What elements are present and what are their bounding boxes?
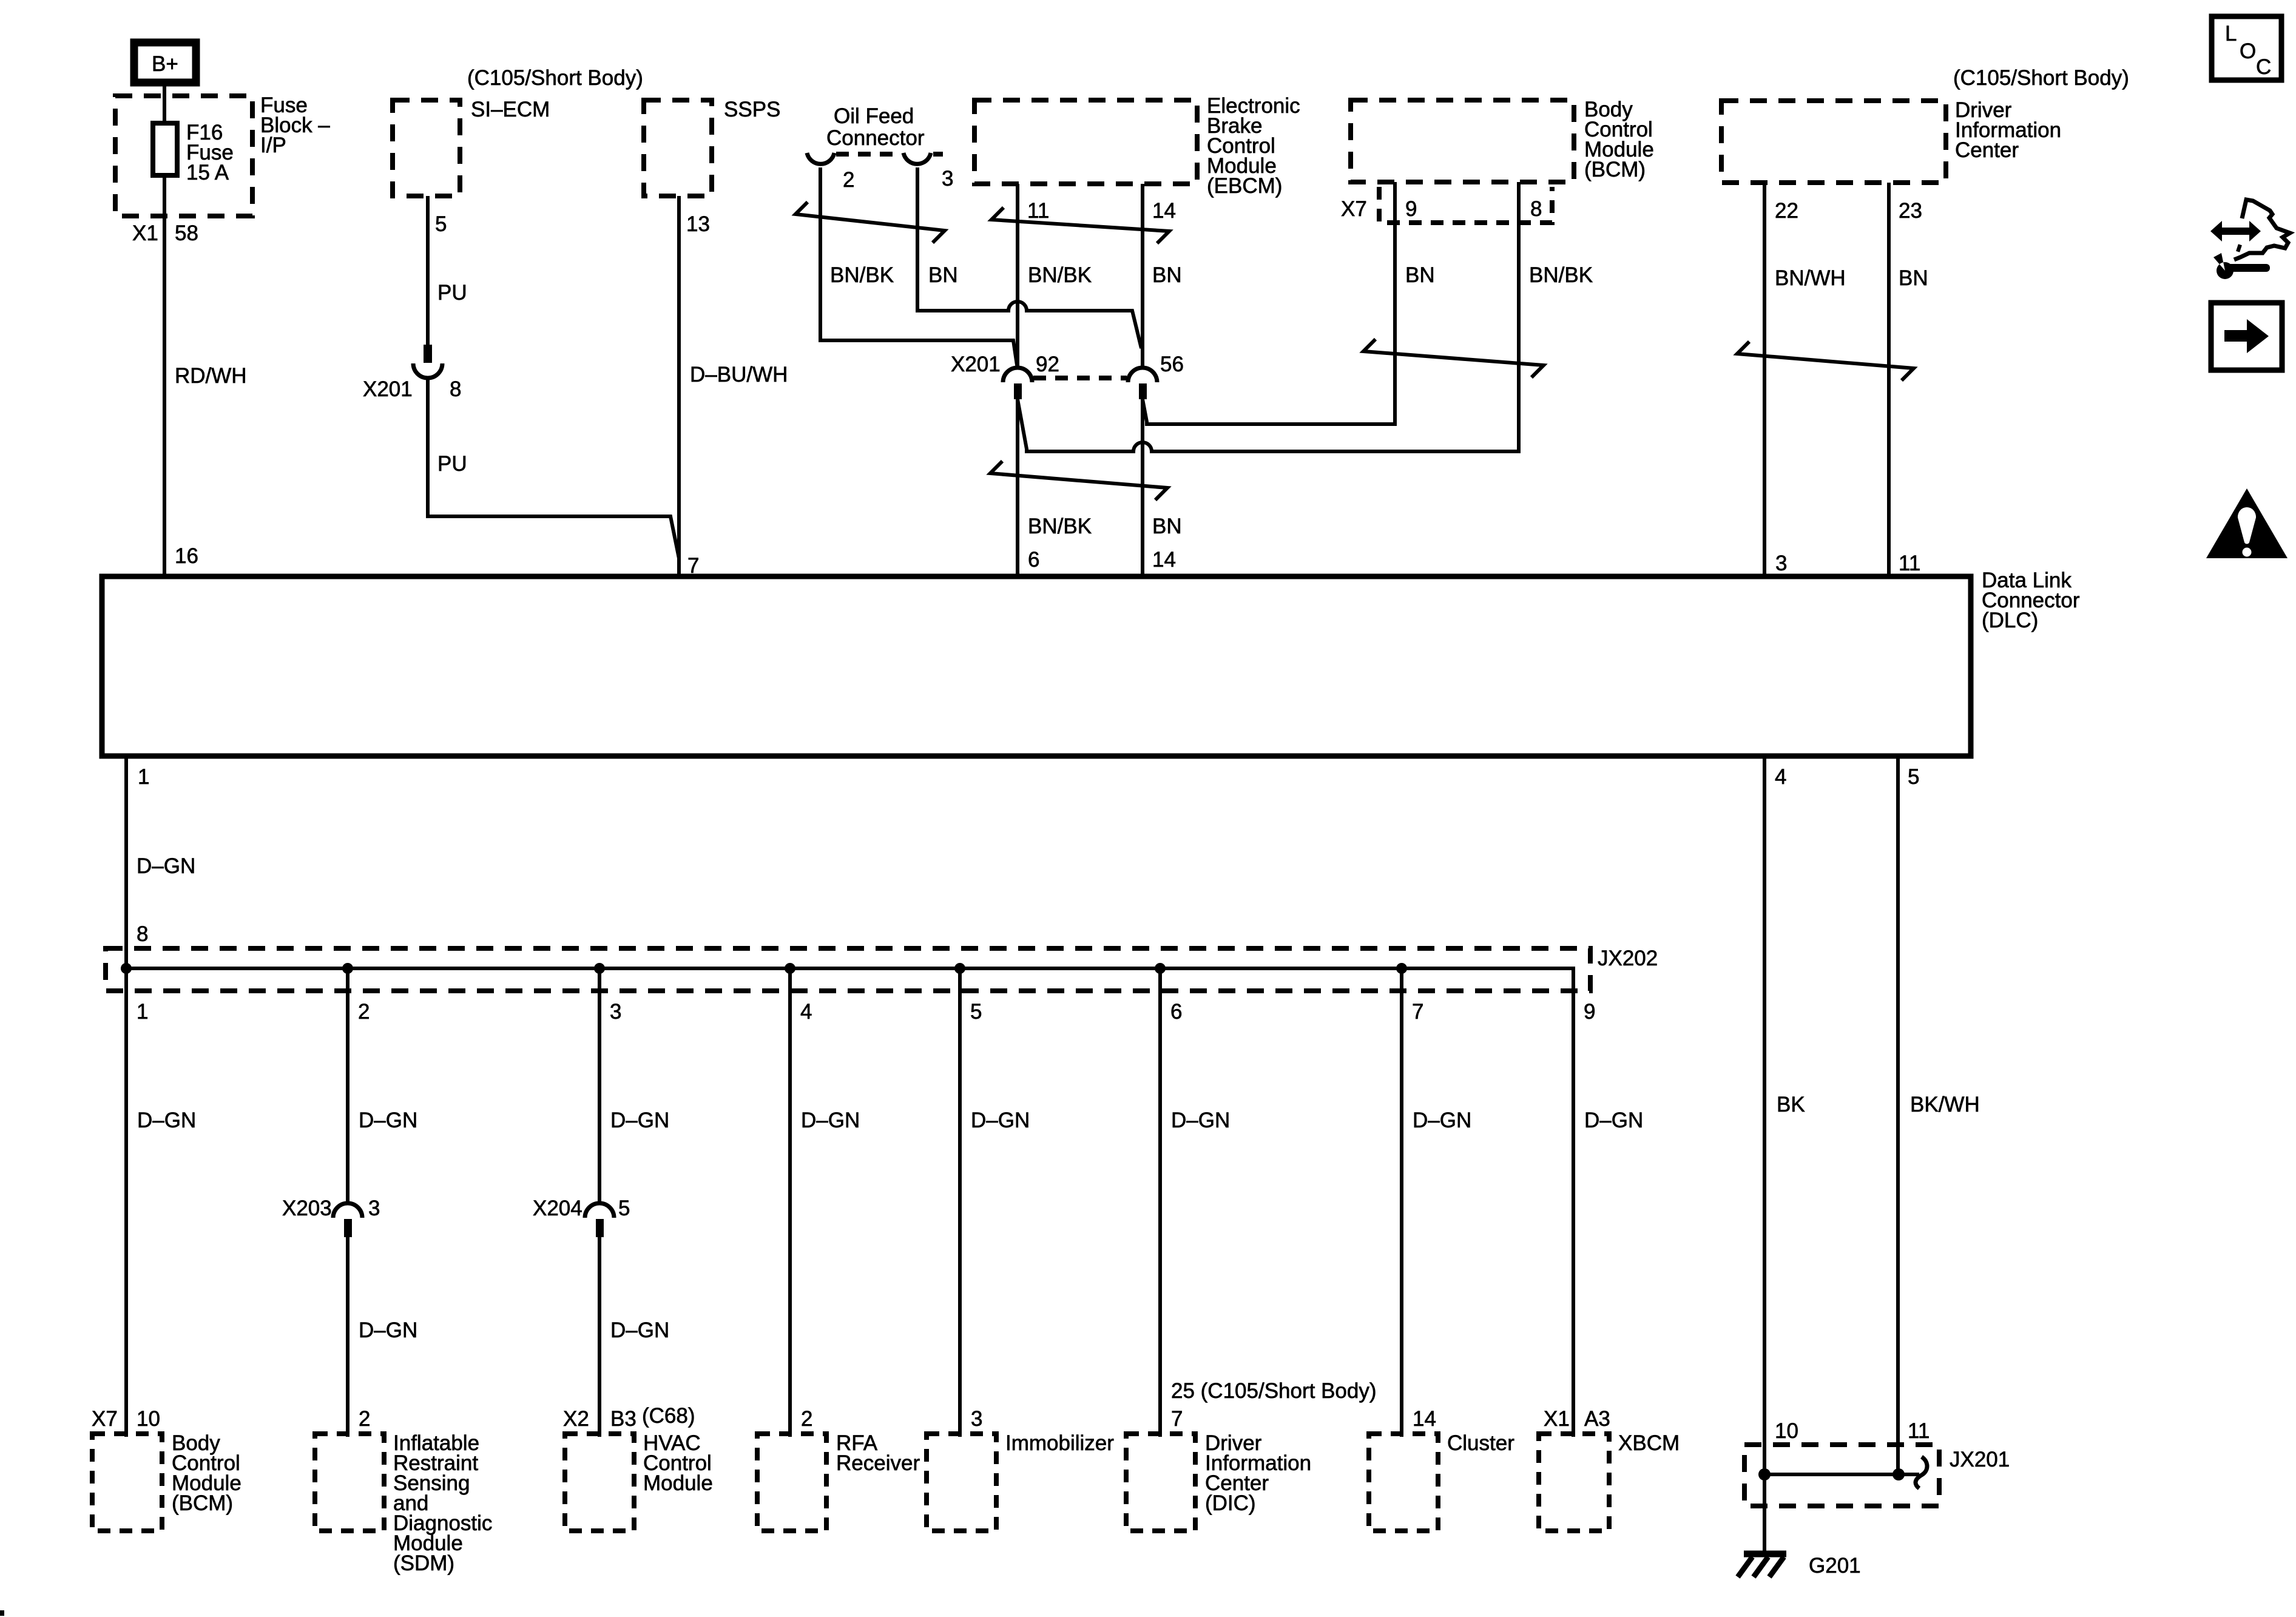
crossover arrow (EBCM wires) — [991, 208, 1169, 243]
svg-text:X1: X1 — [1544, 1407, 1570, 1431]
fuse F16 15A — [153, 123, 177, 175]
svg-text:3: 3 — [971, 1407, 982, 1431]
wire D-GN X204 to HVAC pin B3 — [598, 1237, 601, 1437]
svg-text:9: 9 — [1584, 1000, 1595, 1024]
svg-text:5: 5 — [970, 1000, 982, 1024]
svg-text:O: O — [2240, 39, 2256, 63]
module DIC (bottom) dashed box — [1126, 1434, 1195, 1531]
junction dots on JX202 bus — [121, 963, 132, 974]
icon LOC box — [2212, 16, 2281, 80]
module Cluster dashed box — [1369, 1434, 1438, 1531]
module HVAC Control Module dashed box — [565, 1434, 634, 1531]
wire D-GN JX202 pin 9 to XBCM pin A3 — [1572, 991, 1575, 1437]
svg-text:SI–ECM: SI–ECM — [471, 98, 550, 121]
page period mark — [0, 1610, 4, 1616]
wire D-GN JX202 pin 2 to X203 — [346, 968, 349, 1203]
connector X7 strip on BCM — [1379, 187, 1552, 223]
junction dot JX201 pin 10 — [1758, 1468, 1771, 1480]
svg-text:X7: X7 — [92, 1407, 118, 1431]
wire D-BU/WH SSPS pin 13 to DLC pin 7 — [677, 196, 681, 575]
svg-text:BN/BK: BN/BK — [1028, 263, 1092, 287]
wire BN/BK X201 pin 92 branch to BCM pin 8 (hop over pin 14 wire) — [1018, 182, 1519, 451]
svg-text:D–GN: D–GN — [801, 1109, 860, 1132]
svg-text:2: 2 — [358, 1000, 370, 1024]
svg-text:BN: BN — [1899, 266, 1928, 290]
svg-text:(C105/Short Body): (C105/Short Body) — [467, 66, 643, 90]
junction block JX201 dashed box — [1744, 1445, 1939, 1506]
svg-text:5: 5 — [435, 212, 447, 236]
svg-text:Connector: Connector — [826, 126, 925, 150]
wire BN X201 pin 56 to DLC pin 14 — [1141, 399, 1144, 575]
svg-text:7: 7 — [1171, 1407, 1183, 1431]
svg-text:BK: BK — [1777, 1093, 1805, 1116]
svg-text:4: 4 — [1775, 765, 1786, 789]
svg-text:2: 2 — [801, 1407, 812, 1431]
svg-text:RD/WH: RD/WH — [175, 364, 247, 388]
svg-text:(DIC): (DIC) — [1205, 1491, 1256, 1515]
svg-text:(C68): (C68) — [642, 1404, 695, 1428]
wire BN/BK X201 pin 92 to DLC pin 6 — [1016, 399, 1019, 575]
svg-text:(SDM): (SDM) — [393, 1551, 454, 1575]
wire PU X201 pin 8 to DLC pin 7 — [428, 378, 679, 575]
wire D-GN JX202 pin 6 to DIC pin 7 — [1158, 968, 1162, 1437]
svg-text:SSPS: SSPS — [724, 98, 780, 121]
crossover arrow (below X201) — [990, 461, 1167, 500]
svg-text:D–GN: D–GN — [1171, 1109, 1230, 1132]
svg-text:XBCM: XBCM — [1618, 1431, 1680, 1455]
svg-text:BN: BN — [928, 263, 958, 287]
svg-text:Oil Feed: Oil Feed — [834, 104, 914, 128]
module Driver Information Center dashed box — [1721, 101, 1946, 183]
svg-text:C: C — [2256, 55, 2271, 79]
wire BN oil feed pin 3 to EBCM pin 14 wire (hop over pin 11 wire) — [917, 167, 1141, 348]
connector X201 ribbon (pins 92 and 56) — [951, 353, 1184, 399]
svg-text:B3: B3 — [610, 1407, 636, 1431]
svg-text:X2: X2 — [563, 1407, 589, 1431]
svg-text:BK/WH: BK/WH — [1910, 1093, 1980, 1116]
svg-text:58: 58 — [175, 221, 198, 245]
wire RD/WH fuse to DLC pin 16 — [163, 175, 166, 575]
svg-text:D–GN: D–GN — [1413, 1109, 1471, 1132]
svg-text:Module: Module — [643, 1471, 713, 1495]
ground G201 — [1738, 1554, 1861, 1578]
svg-text:3: 3 — [368, 1197, 380, 1220]
svg-text:14: 14 — [1152, 199, 1176, 223]
svg-text:(BCM): (BCM) — [172, 1491, 233, 1515]
connector X203 inline — [333, 1203, 362, 1218]
svg-text:8: 8 — [137, 922, 148, 946]
svg-text:3: 3 — [610, 1000, 621, 1024]
module BCM (bottom) dashed box — [92, 1434, 162, 1531]
svg-text:(EBCM): (EBCM) — [1207, 174, 1282, 198]
svg-text:3: 3 — [942, 167, 953, 191]
wire D-GN JX202 pin 4 to RFA pin 2 — [788, 968, 792, 1437]
svg-text:8: 8 — [450, 377, 461, 401]
svg-text:X204: X204 — [533, 1197, 582, 1220]
wire D-GN JX202 pin 7 to Cluster pin 14 — [1400, 968, 1403, 1437]
svg-text:14: 14 — [1152, 548, 1176, 572]
wire D-GN JX202 pin 1 to BCM pin 10 — [124, 968, 128, 1437]
svg-text:PU: PU — [437, 281, 467, 305]
svg-text:2: 2 — [843, 168, 854, 192]
JX201 continuation curl — [1899, 1473, 1919, 1476]
B+ power symbol — [134, 42, 196, 83]
svg-text:BN/BK: BN/BK — [830, 263, 894, 287]
junction dot JX201 pin 11 — [1893, 1468, 1905, 1480]
wire D-GN X203 to SDM pin 2 — [346, 1237, 349, 1437]
wire JX201 internal bus — [1764, 1473, 1899, 1476]
icon warning triangle — [2206, 488, 2288, 558]
svg-text:BN: BN — [1152, 263, 1182, 287]
svg-text:Cluster: Cluster — [1447, 1431, 1514, 1455]
svg-text:8: 8 — [1530, 197, 1542, 221]
svg-text:I/P: I/P — [260, 133, 286, 157]
svg-text:Receiver: Receiver — [836, 1451, 920, 1475]
module EBCM dashed box — [974, 100, 1197, 184]
svg-text:1: 1 — [138, 765, 149, 789]
svg-text:15 A: 15 A — [186, 161, 229, 184]
wire JX201 to ground — [1763, 1474, 1766, 1554]
svg-text:3: 3 — [1775, 552, 1787, 575]
svg-text:X201: X201 — [951, 353, 1001, 376]
svg-text:BN/WH: BN/WH — [1775, 266, 1846, 290]
icon connector repair (double arrow, terminal outline, wrench) — [2210, 200, 2290, 279]
module RFA Receiver dashed box — [757, 1434, 826, 1531]
crossover arrow (DIC wires) — [1737, 342, 1914, 380]
svg-text:56: 56 — [1160, 353, 1184, 376]
svg-text:(C105/Short Body): (C105/Short Body) — [1953, 66, 2129, 90]
svg-text:BN: BN — [1405, 263, 1435, 287]
svg-text:7: 7 — [1412, 1000, 1423, 1024]
svg-text:13: 13 — [686, 212, 710, 236]
svg-text:11: 11 — [1908, 1419, 1930, 1443]
svg-text:1: 1 — [137, 1000, 148, 1024]
svg-text:BN/BK: BN/BK — [1529, 263, 1593, 287]
svg-text:D–GN: D–GN — [137, 854, 195, 878]
wire BN/WH DIC pin 22 to DLC pin 3 — [1763, 183, 1766, 575]
svg-text:D–GN: D–GN — [359, 1318, 417, 1342]
svg-text:D–GN: D–GN — [610, 1109, 669, 1132]
wire BN EBCM pin 14 to X201 pin 56 — [1141, 184, 1144, 369]
svg-text:PU: PU — [437, 452, 467, 476]
module SI-ECM dashed box — [393, 100, 460, 196]
svg-text:4: 4 — [800, 1000, 812, 1024]
module SSPS dashed box — [644, 100, 712, 196]
svg-text:22: 22 — [1775, 199, 1798, 223]
wire D-GN JX202 pin 5 to Immobilizer pin 3 — [958, 968, 962, 1437]
svg-text:D–GN: D–GN — [1584, 1109, 1643, 1132]
wire JX202 bus — [126, 968, 1573, 991]
svg-text:10: 10 — [1775, 1419, 1798, 1443]
crossover arrow (BCM wires) — [1363, 339, 1544, 377]
svg-text:X203: X203 — [282, 1197, 332, 1220]
svg-text:5: 5 — [1908, 765, 1919, 789]
icon arrow box — [2211, 303, 2282, 370]
junction block JX202 dashed box — [106, 948, 1590, 991]
wire BN X201 pin 56 branch to BCM pin 9 — [1143, 182, 1395, 424]
wire PU SI-ECM pin 5 to X201 pin 8 — [426, 196, 430, 345]
svg-text:5: 5 — [618, 1197, 630, 1220]
module SDM dashed box — [315, 1434, 384, 1531]
svg-text:10: 10 — [137, 1407, 160, 1431]
fuse block I/P dashed box — [115, 96, 252, 216]
svg-text:A3: A3 — [1584, 1407, 1610, 1431]
svg-text:JX201: JX201 — [1950, 1448, 2010, 1471]
svg-text:6: 6 — [1028, 548, 1039, 572]
svg-text:D–GN: D–GN — [610, 1318, 669, 1342]
svg-text:JX202: JX202 — [1598, 947, 1658, 970]
wire D-GN DLC pin 1 to JX202 — [124, 758, 128, 968]
wire BN/BK EBCM pin 11 to X201 pin 92 — [1016, 184, 1019, 369]
svg-text:2: 2 — [359, 1407, 370, 1431]
svg-text:D–BU/WH: D–BU/WH — [690, 363, 788, 387]
svg-text:X7: X7 — [1341, 197, 1367, 221]
svg-text:X201: X201 — [363, 377, 413, 401]
svg-text:16: 16 — [175, 544, 198, 568]
svg-text:L: L — [2225, 22, 2237, 46]
svg-text:25 (C105/Short Body): 25 (C105/Short Body) — [1171, 1379, 1377, 1403]
svg-text:D–GN: D–GN — [359, 1109, 417, 1132]
svg-text:(BCM): (BCM) — [1584, 158, 1646, 181]
Data Link Connector DLC box — [102, 576, 1971, 756]
svg-text:BN: BN — [1152, 515, 1182, 538]
svg-text:X1: X1 — [132, 221, 158, 245]
svg-text:Immobilizer: Immobilizer — [1005, 1431, 1114, 1455]
wire BN DIC pin 23 to DLC pin 11 — [1887, 183, 1891, 575]
svg-text:9: 9 — [1405, 197, 1417, 221]
svg-text:D–GN: D–GN — [137, 1109, 196, 1132]
module BCM dashed box — [1351, 100, 1574, 182]
svg-text:(DLC): (DLC) — [1982, 609, 2038, 632]
wire D-GN JX202 pin 3 to X204 — [598, 968, 601, 1203]
connector Oil Feed Connector — [807, 104, 943, 164]
crossover arrow left (oil feed wires) — [795, 202, 945, 243]
module Immobilizer dashed box — [927, 1434, 996, 1531]
svg-text:G201: G201 — [1809, 1554, 1861, 1578]
svg-text:92: 92 — [1036, 353, 1059, 376]
wire BK/WH DLC pin 5 to JX201 pin 11 — [1896, 758, 1900, 1474]
svg-text:Center: Center — [1955, 138, 2019, 162]
svg-text:D–GN: D–GN — [971, 1109, 1030, 1132]
svg-text:14: 14 — [1413, 1407, 1436, 1431]
wire BK DLC pin 4 to JX201 pin 10 — [1763, 758, 1766, 1474]
module XBCM dashed box — [1539, 1434, 1609, 1531]
svg-text:BN/BK: BN/BK — [1028, 515, 1092, 538]
svg-text:6: 6 — [1170, 1000, 1182, 1024]
connector X201 pin 8 inline (stub and cup) — [424, 345, 432, 363]
wire B+ to fuse — [163, 83, 166, 125]
svg-text:B+: B+ — [152, 52, 178, 76]
svg-text:23: 23 — [1899, 199, 1922, 223]
svg-text:11: 11 — [1899, 552, 1920, 575]
connector X204 inline — [585, 1203, 614, 1218]
wire BN/BK oil feed pin 2 to X201 pin 92 — [820, 167, 1018, 369]
svg-text:11: 11 — [1027, 199, 1049, 223]
